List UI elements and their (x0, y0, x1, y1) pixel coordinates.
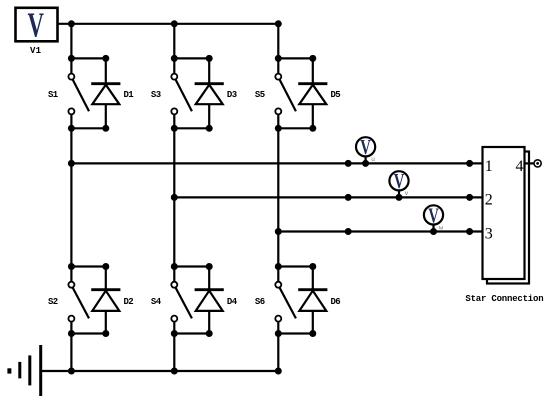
svg-text:V: V (394, 170, 405, 193)
node S4 bottom junction (171, 330, 178, 337)
switch S4 (171, 267, 192, 334)
bottom rail junction leg 2 (171, 368, 178, 375)
junction voltmeter Vu (362, 160, 369, 167)
junction voltmeter Vw (430, 228, 437, 235)
wire top rail to leg 2 (173, 24, 175, 59)
node D5 top junction (309, 55, 316, 62)
junction rail V mid (345, 194, 352, 201)
voltmeter Vw (424, 204, 443, 232)
svg-text:D1: D1 (124, 90, 135, 100)
node D3 bottom junction (206, 125, 213, 132)
diode D3 (195, 58, 224, 128)
terminal node N (534, 160, 541, 167)
voltage source V1 (16, 7, 58, 45)
wire phase rail W (node 3) (278, 230, 482, 232)
svg-text:D6: D6 (331, 297, 341, 307)
node S6 top junction (275, 263, 282, 270)
svg-text:S4: S4 (151, 297, 162, 307)
svg-text:V1: V1 (30, 46, 42, 56)
wire node S2-D2 top (71, 265, 105, 267)
junction voltmeter Vv (396, 194, 403, 201)
node S2 bottom junction (68, 330, 75, 337)
svg-text:Star Connection: Star Connection (465, 294, 543, 304)
svg-text:S5: S5 (255, 90, 265, 100)
wire pin 4 (525, 162, 535, 164)
wire node S5-D5 bottom (278, 127, 313, 129)
star connection box shadow (487, 152, 529, 284)
svg-text:v: v (405, 190, 409, 197)
node D4 bottom junction (206, 330, 213, 337)
top rail junction leg 2 (171, 20, 178, 27)
node D6 bottom junction (309, 330, 316, 337)
svg-text:S2: S2 (48, 297, 58, 307)
node S5 top junction (275, 55, 282, 62)
wire node S4-D4 top (174, 265, 209, 267)
wire leg 1 midpoint bus (70, 128, 72, 266)
top rail junction leg 1 (68, 20, 75, 27)
svg-text:D2: D2 (124, 297, 134, 307)
node S1 top junction (68, 55, 75, 62)
wire leg 2 midpoint bus (173, 128, 175, 266)
junction rail V near box (466, 194, 473, 201)
wire leg 3 to bottom rail (277, 334, 279, 372)
wire node S3-D3 bottom (174, 127, 209, 129)
bottom rail junction leg 1 (68, 368, 75, 375)
svg-text:3: 3 (485, 226, 493, 243)
wire top rail to leg 1 (70, 24, 72, 59)
voltmeter Vv (389, 170, 408, 198)
wire phase rail U (node 1) (71, 162, 482, 164)
node D1 top junction (102, 55, 109, 62)
wire top rail to leg 3 (277, 24, 279, 59)
wire node S6-D6 bottom (278, 332, 313, 334)
wire node S1-D1 top (71, 57, 105, 59)
diode D5 (298, 58, 327, 128)
node S2 top junction (68, 263, 75, 270)
svg-text:w: w (439, 224, 443, 231)
node D3 top junction (206, 55, 213, 62)
node S3 top junction (171, 55, 178, 62)
node S4 top junction (171, 263, 178, 270)
wire phase rail V (node 2) (174, 196, 482, 198)
junction rail U mid (345, 160, 352, 167)
node S1 bottom junction (68, 125, 75, 132)
switch S5 (275, 58, 296, 128)
node D5 bottom junction (309, 125, 316, 132)
ground (9, 345, 40, 396)
node D6 top junction (309, 263, 316, 270)
switch S6 (275, 267, 296, 334)
voltmeter Vu (356, 136, 375, 164)
wire node S6-D6 top (278, 265, 313, 267)
svg-text:S6: S6 (255, 297, 265, 307)
wire node S5-D5 top (278, 57, 313, 59)
svg-text:2: 2 (485, 191, 493, 208)
bottom rail junction leg 3 (275, 368, 282, 375)
wire node S1-D1 bottom (71, 127, 105, 129)
svg-text:D4: D4 (227, 297, 238, 307)
wire leg 2 to bottom rail (173, 334, 175, 372)
svg-text:D5: D5 (331, 90, 341, 100)
junction rail W near box (466, 228, 473, 235)
diode D1 (91, 58, 120, 128)
svg-text:V: V (428, 204, 439, 227)
node S5 bottom junction (275, 125, 282, 132)
node S3 bottom junction (171, 125, 178, 132)
wire node S3-D3 top (174, 57, 209, 59)
junction rail U near box (466, 160, 473, 167)
junction leg 3 to rail W (275, 228, 282, 235)
node D1 bottom junction (102, 125, 109, 132)
star connection box U1 (483, 147, 525, 279)
switch S1 (68, 58, 89, 128)
svg-text:V: V (360, 136, 371, 159)
switch S2 (68, 267, 89, 334)
wire top rail (58, 23, 279, 25)
node D4 top junction (206, 263, 213, 270)
wire node S4-D4 bottom (174, 332, 209, 334)
svg-text:D3: D3 (227, 90, 237, 100)
junction rail W mid (345, 228, 352, 235)
svg-text:u: u (371, 156, 375, 163)
svg-text:1: 1 (485, 158, 493, 175)
node D2 top junction (102, 263, 109, 270)
junction leg 2 to rail V (171, 194, 178, 201)
svg-text:S1: S1 (48, 90, 59, 100)
svg-text:4: 4 (516, 158, 524, 175)
wire leg 1 to bottom rail (70, 334, 72, 372)
svg-text:V: V (27, 7, 43, 45)
diode D2 (91, 267, 120, 334)
switch S3 (171, 58, 192, 128)
diode D6 (298, 267, 327, 334)
node S6 bottom junction (275, 330, 282, 337)
wire leg 3 midpoint bus (277, 128, 279, 266)
wire bottom rail (41, 370, 278, 372)
diode D4 (195, 267, 224, 334)
junction leg 1 to rail U (68, 160, 75, 167)
wire node S2-D2 bottom (71, 332, 105, 334)
svg-text:S3: S3 (151, 90, 161, 100)
top rail junction leg 3 (275, 20, 282, 27)
node D2 bottom junction (102, 330, 109, 337)
